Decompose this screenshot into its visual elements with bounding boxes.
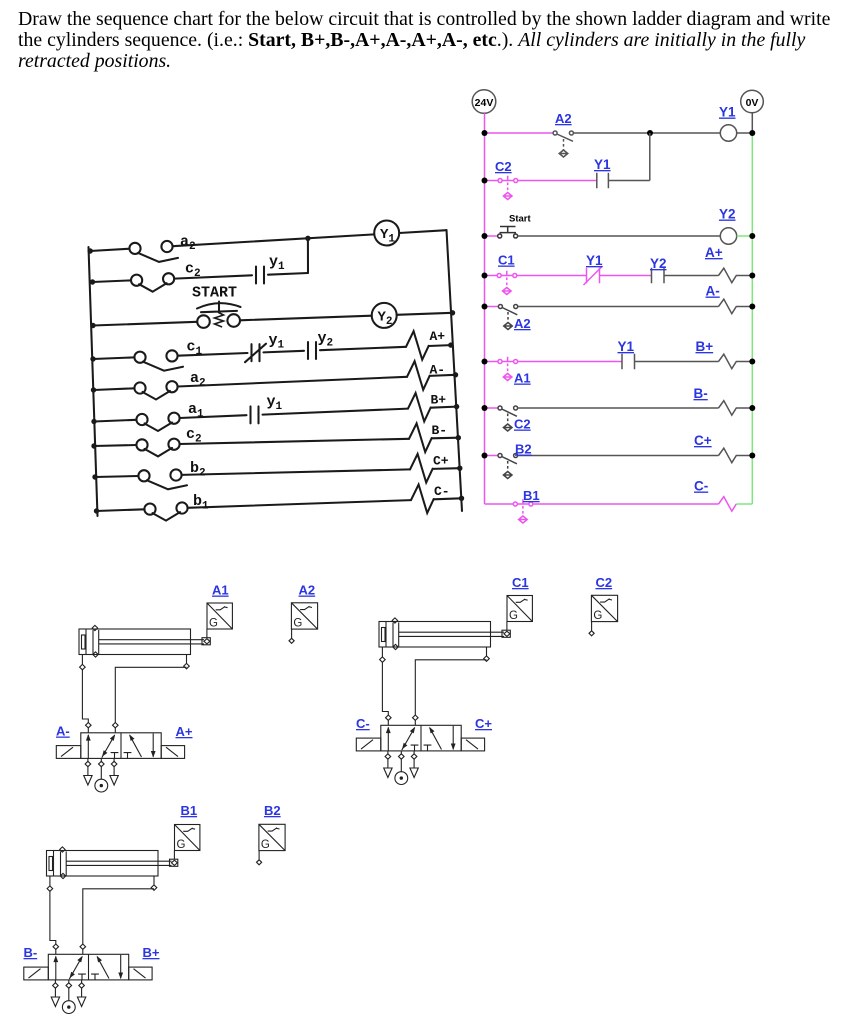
contact b1 (row 9): [144, 502, 187, 520]
contact A2 (NO limit switch): [553, 131, 573, 157]
svg-text:B-: B-: [432, 423, 448, 438]
node row7 left rail: [91, 443, 96, 448]
coil Y2: [720, 228, 736, 244]
svg-text:A-: A-: [706, 284, 720, 299]
wire: [397, 313, 453, 315]
row 3 wire: [93, 322, 197, 326]
node row8 right rail: [457, 466, 462, 471]
svg-text:B+: B+: [431, 393, 447, 408]
cylinder B assembly: [24, 824, 285, 1013]
wire: [320, 347, 406, 350]
relay contact y1 (row 6): [251, 406, 259, 423]
svg-text:Y1: Y1: [380, 227, 395, 246]
wire: [188, 500, 411, 508]
relay contact y2 (row 4): [308, 342, 316, 359]
svg-text:y1: y1: [269, 254, 285, 274]
junction dot: [647, 130, 653, 136]
relay coil Y1: [374, 221, 399, 246]
node row5 right rail: [453, 372, 458, 377]
svg-text:B+: B+: [696, 339, 714, 354]
contact B2 (NO): [498, 454, 518, 479]
svg-text:B-: B-: [694, 386, 708, 401]
wire: [178, 353, 248, 356]
svg-text:a2: a2: [180, 234, 196, 254]
solenoid output B+: [408, 393, 431, 421]
svg-text:y1: y1: [269, 332, 285, 352]
contact C1 (closed, live): [497, 271, 517, 295]
contact a2 (row 5): [134, 381, 177, 399]
output A+ (zigzag): [719, 268, 753, 283]
rung 7 : C2 -> B-: [482, 386, 756, 432]
24V supply circle: [472, 90, 496, 114]
node row5 left rail: [91, 387, 96, 392]
svg-text:y2: y2: [318, 330, 334, 350]
node row1/row2 junction: [305, 236, 310, 241]
rung 4 : C1, Y1 NC, Y2 -> A+: [482, 245, 756, 295]
svg-text:a2: a2: [190, 370, 206, 390]
left rail (live, magenta): [484, 113, 486, 504]
rung 8 : B2 -> C+: [482, 433, 756, 479]
right rail (green): [751, 133, 753, 504]
right rail top stub: [751, 113, 753, 133]
rung 3 : Start -> Y2 coil: [482, 207, 756, 245]
row 4 wire: [93, 357, 135, 359]
wire: [182, 469, 410, 475]
wire: [174, 275, 252, 278]
wire: [434, 498, 462, 499]
svg-text:24V: 24V: [475, 97, 494, 109]
svg-text:a1: a1: [188, 401, 204, 421]
svg-text:C1: C1: [512, 575, 529, 590]
svg-text:Y1: Y1: [719, 105, 736, 120]
svg-text:0V: 0V: [746, 97, 759, 109]
contact A1 (closed, live): [498, 357, 518, 381]
row 1 wire: [90, 249, 130, 251]
relay contact y1 NC (row 4): [245, 344, 266, 363]
solenoid output B-: [409, 423, 432, 452]
svg-text:B1: B1: [523, 488, 540, 503]
svg-text:Y2: Y2: [378, 310, 393, 329]
svg-text:Y2: Y2: [650, 256, 667, 271]
row 6 wire: [94, 420, 137, 422]
svg-text:C2: C2: [495, 159, 512, 174]
svg-text:C-: C-: [694, 479, 708, 494]
wire riser to row 1: [307, 238, 309, 273]
svg-text:c1: c1: [187, 339, 203, 359]
svg-text:C2: C2: [596, 575, 613, 590]
svg-text:A2: A2: [555, 111, 572, 126]
wire: [180, 415, 247, 418]
solenoid output A-: [407, 361, 430, 390]
wire: [431, 407, 457, 408]
contact B1 (closed, live): [513, 499, 533, 523]
svg-text:C+: C+: [433, 454, 449, 469]
node row2 left rail: [90, 279, 95, 284]
row 7 wire: [94, 445, 137, 446]
rung 2 : C2, Y1 -> joins rung1: [482, 133, 650, 200]
contact C2 (NO): [498, 406, 518, 431]
solenoid output C-: [411, 485, 434, 514]
svg-text:B-: B-: [24, 945, 38, 960]
0V supply circle: [741, 90, 764, 113]
node row1 left rail: [88, 248, 93, 253]
solenoid output A+: [406, 331, 429, 360]
svg-text:b2: b2: [190, 460, 206, 480]
svg-text:A2: A2: [299, 583, 316, 598]
node row4 right rail: [448, 342, 453, 347]
svg-text:A2: A2: [514, 316, 531, 331]
svg-text:B+: B+: [143, 945, 160, 960]
svg-text:y1: y1: [267, 394, 283, 414]
rung 6 : A1, Y1 -> B+: [482, 339, 756, 386]
relay contact Y1 (NO): [597, 133, 650, 188]
svg-text:A-: A-: [56, 724, 70, 739]
svg-text:A1: A1: [514, 371, 531, 386]
svg-text:c2: c2: [186, 426, 202, 446]
rung 1 : A2 -> Y1 coil: [482, 105, 756, 158]
relay contact Y1 (NO): [622, 354, 635, 370]
svg-text:Y1: Y1: [618, 339, 635, 354]
hand-drawn labels: [180, 227, 450, 513]
solenoid output C+: [410, 454, 433, 483]
wire: [180, 439, 409, 444]
left bus rail: [89, 247, 98, 516]
node row3 left rail: [90, 323, 95, 328]
node row3 right rail: [450, 310, 455, 315]
wire: [429, 344, 451, 347]
relay coil Y2: [372, 303, 397, 328]
relay contact Y2 (NO): [652, 268, 665, 284]
svg-text:A+: A+: [705, 245, 723, 260]
wire: [430, 375, 456, 376]
node row6 right rail: [454, 404, 459, 409]
node row9 left rail: [94, 508, 99, 513]
question text: [18, 9, 842, 72]
node row4 left rail: [90, 356, 95, 361]
svg-text:Y1: Y1: [586, 253, 603, 268]
contact a2 (row 1): [129, 241, 178, 262]
contact Start (NO pushbutton): [498, 227, 518, 239]
svg-text:START: START: [192, 285, 237, 302]
svg-text:B2: B2: [264, 803, 281, 818]
cylinder C assembly: [356, 595, 617, 784]
svg-text:b1: b1: [193, 493, 209, 513]
node row7 right rail: [456, 435, 461, 440]
svg-text:A+: A+: [430, 329, 446, 344]
cylinder A assembly: [56, 603, 317, 792]
wire live: [485, 132, 554, 134]
row 2 wire: [93, 280, 132, 282]
row 9 wire: [96, 509, 145, 511]
wire: [433, 467, 460, 470]
contact b2 (row 8): [138, 469, 187, 489]
wire: [178, 377, 407, 387]
wire: [264, 351, 305, 353]
relay contact Y1 (NC, live): [584, 266, 603, 285]
svg-text:Y2: Y2: [719, 207, 736, 222]
svg-text:Y1: Y1: [594, 157, 611, 172]
wire: [432, 437, 459, 440]
svg-text:c2: c2: [185, 261, 201, 281]
svg-text:C-: C-: [356, 716, 370, 731]
wire: [268, 273, 308, 275]
rung 5 : A2 -> A-: [482, 284, 756, 332]
relay contact y1 (row 2): [256, 267, 264, 284]
svg-text:Start: Start: [509, 214, 531, 225]
svg-text:B1: B1: [181, 803, 198, 818]
wire to coil: [573, 132, 752, 134]
row 8 wire: [95, 476, 139, 477]
contact C2 (closed, live): [498, 176, 518, 200]
row 5 wire: [94, 388, 135, 390]
node row9 right rail: [459, 496, 464, 501]
contact c2 (row 7): [136, 439, 179, 457]
svg-text:C+: C+: [694, 433, 712, 448]
node row8 left rail: [92, 474, 97, 479]
contact c2 (row 2): [131, 273, 174, 292]
svg-text:C2: C2: [514, 417, 531, 432]
contact c1 (row 4): [134, 350, 183, 370]
svg-text:A-: A-: [430, 363, 446, 378]
wire: [173, 234, 375, 246]
wire: [399, 230, 446, 233]
svg-text:A+: A+: [176, 724, 193, 739]
coil Y1: [720, 125, 736, 141]
svg-text:C+: C+: [475, 716, 492, 731]
svg-text:B2: B2: [515, 442, 532, 457]
pushbutton START: [197, 302, 241, 328]
contact A2 (NO): [498, 305, 517, 330]
rung 9 : B1 -> C- (all live): [485, 479, 753, 524]
right bus rail: [447, 230, 463, 511]
svg-text:A1: A1: [212, 583, 229, 598]
svg-text:C1: C1: [498, 253, 515, 268]
wire: [240, 316, 372, 321]
contact a1 (row 6): [136, 413, 179, 431]
svg-text:C-: C-: [434, 484, 450, 499]
node row6 left rail: [91, 419, 96, 424]
wire: [263, 409, 409, 415]
